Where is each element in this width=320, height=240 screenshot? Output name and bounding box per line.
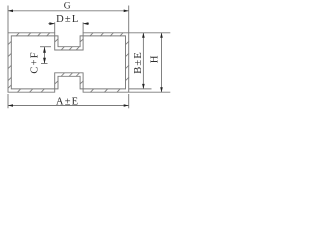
svg-text:C+F: C+F bbox=[29, 51, 40, 73]
svg-text:A±E: A±E bbox=[56, 97, 79, 108]
dimension C+F top arrow bbox=[43, 47, 46, 53]
dimension G right arrow bbox=[124, 10, 129, 13]
hatch ticks bottom notch ceiling band bbox=[61, 73, 79, 77]
dimension B±E top arrow bbox=[142, 33, 145, 38]
hatch ticks notch side walls bbox=[55, 39, 84, 84]
dimension A±E extension line left bbox=[7, 94, 9, 108]
inner contour of thin-wall section bbox=[11, 36, 125, 89]
dimension H bottom arrow bbox=[160, 87, 163, 92]
hatch ticks top notch floor band bbox=[61, 47, 79, 51]
dimension H top arrow bbox=[160, 33, 163, 38]
hatch ticks left band bbox=[8, 41, 12, 88]
svg-text:D±L: D±L bbox=[56, 14, 79, 25]
dimension G line bbox=[8, 10, 129, 12]
svg-text:H: H bbox=[149, 55, 160, 63]
dimension C+F bottom extension tick bbox=[41, 63, 48, 65]
dimension G left arrow bbox=[8, 10, 13, 13]
hatch ticks top-left band bbox=[16, 33, 50, 37]
dimension D±L line left part bbox=[48, 23, 54, 25]
dimension C+F line bbox=[44, 47, 46, 64]
dimension A±E extension line right bbox=[128, 94, 130, 108]
svg-text:G: G bbox=[64, 2, 71, 12]
dimension B±E bottom arrow bbox=[142, 84, 145, 89]
dimension A±E line bbox=[8, 105, 129, 107]
dimension A±E left arrow bbox=[8, 104, 13, 107]
dimension H line bbox=[161, 33, 163, 92]
hatch ticks bottom-right band bbox=[90, 89, 120, 93]
dimension A±E right arrow bbox=[124, 104, 129, 107]
dimension H bottom extension line bbox=[129, 91, 171, 93]
hatch ticks bottom-left band bbox=[17, 89, 44, 93]
dimension C+F bottom arrow bbox=[43, 58, 46, 64]
dimension D±L left arrow bbox=[49, 22, 54, 25]
dimension D±L line right part bbox=[83, 23, 89, 25]
dimension C+F top extension tick bbox=[40, 46, 51, 48]
dimension D±L right arrow bbox=[83, 22, 88, 25]
svg-text:B±E: B±E bbox=[133, 51, 144, 74]
dimension D±L extension lines bbox=[55, 22, 83, 33]
hatch ticks right band bbox=[125, 41, 129, 81]
dimension B±E / H shared top extension line bbox=[129, 32, 171, 34]
outer contour of thin-wall section bbox=[8, 33, 129, 92]
dimension B±E bottom extension line bbox=[129, 88, 152, 90]
dimension G extension line right bbox=[128, 6, 130, 33]
dimension G extension line left bbox=[7, 6, 9, 33]
dimension B±E line bbox=[142, 33, 144, 89]
hatch ticks top-right band bbox=[90, 33, 123, 37]
